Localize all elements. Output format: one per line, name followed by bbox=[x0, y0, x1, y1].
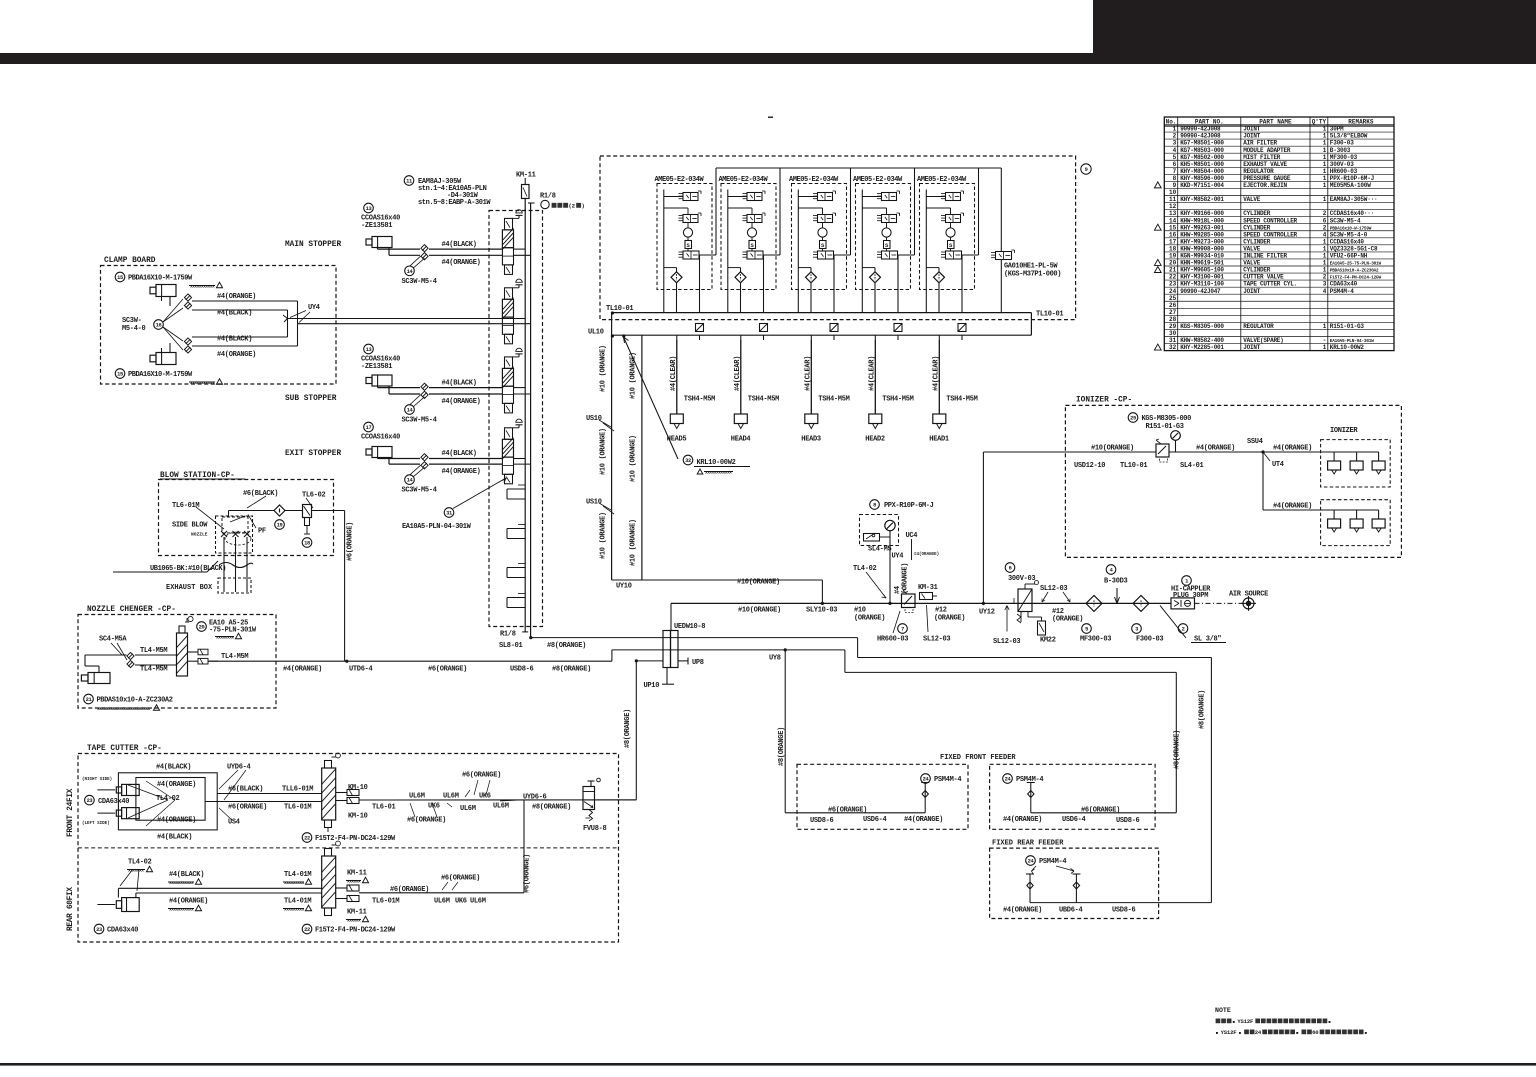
svg-text:#10(ORANGE): #10(ORANGE) bbox=[737, 579, 780, 587]
svg-text:R151-01-G3: R151-01-G3 bbox=[1330, 323, 1365, 330]
svg-text:NOZZLE: NOZZLE bbox=[191, 532, 208, 538]
svg-text:UY4: UY4 bbox=[308, 304, 320, 312]
svg-text:REMARKS: REMARKS bbox=[1348, 118, 1374, 125]
svg-text:21: 21 bbox=[1169, 267, 1177, 274]
svg-text:KKD-M7151-004: KKD-M7151-004 bbox=[1180, 182, 1224, 189]
svg-text:KM-11: KM-11 bbox=[347, 870, 367, 878]
svg-text:AIR SOURCE: AIR SOURCE bbox=[1229, 591, 1268, 599]
svg-text:6: 6 bbox=[1323, 217, 1327, 224]
svg-text:#6(ORANGE): #6(ORANGE) bbox=[347, 522, 355, 561]
svg-text:KRL10-00W2: KRL10-00W2 bbox=[1330, 344, 1365, 351]
svg-text:B-3003: B-3003 bbox=[1330, 147, 1351, 154]
svg-text:90990-42J008: 90990-42J008 bbox=[1180, 126, 1221, 133]
svg-text:#4(BLACK): #4(BLACK) bbox=[442, 379, 477, 387]
svg-text:F300-03: F300-03 bbox=[1136, 636, 1163, 644]
svg-text:UY10: UY10 bbox=[616, 583, 632, 591]
svg-text:SUB STOPPER: SUB STOPPER bbox=[285, 395, 337, 403]
svg-text:22: 22 bbox=[1169, 274, 1177, 281]
svg-text:5L3/8"ELBOW: 5L3/8"ELBOW bbox=[1330, 133, 1368, 140]
svg-text:#4(ORANGE): #4(ORANGE) bbox=[442, 259, 481, 267]
svg-text:SC3W-M5-4-0: SC3W-M5-4-0 bbox=[1330, 231, 1368, 238]
svg-text:1: 1 bbox=[1173, 126, 1177, 133]
svg-text:Q'TY: Q'TY bbox=[1312, 118, 1327, 125]
svg-text:USD6-4: USD6-4 bbox=[863, 816, 887, 824]
svg-text:1: 1 bbox=[1323, 175, 1327, 182]
svg-text:3: 3 bbox=[1323, 281, 1327, 288]
svg-text:SC3W-M5-4: SC3W-M5-4 bbox=[402, 417, 437, 425]
svg-text:20: 20 bbox=[199, 625, 205, 631]
svg-text:UL6M: UL6M bbox=[443, 793, 459, 801]
svg-text:8: 8 bbox=[1173, 175, 1177, 182]
svg-text:TSH4-M5M: TSH4-M5M bbox=[748, 396, 779, 404]
svg-text:PART NAME: PART NAME bbox=[1259, 118, 1292, 125]
svg-text:HR600-03: HR600-03 bbox=[877, 636, 908, 644]
svg-text:21: 21 bbox=[86, 697, 92, 703]
svg-text:VALVE(SPARE): VALVE(SPARE) bbox=[1243, 337, 1283, 344]
svg-text:R151-01-G3: R151-01-G3 bbox=[1146, 423, 1184, 431]
svg-text:1: 1 bbox=[1323, 344, 1327, 351]
svg-text:#6(ORANGE): #6(ORANGE) bbox=[228, 804, 267, 812]
svg-text:30PM: 30PM bbox=[1330, 126, 1344, 133]
svg-text:MAIN STOPPER: MAIN STOPPER bbox=[285, 241, 341, 249]
svg-text:USD8-6: USD8-6 bbox=[1116, 817, 1140, 825]
svg-text:PF: PF bbox=[258, 528, 266, 536]
svg-text:#6(ORANGE): #6(ORANGE) bbox=[1081, 807, 1120, 815]
svg-text:UY8: UY8 bbox=[769, 655, 781, 663]
svg-text:#4(ORANGE): #4(ORANGE) bbox=[217, 293, 256, 301]
svg-text:#8(ORANGE): #8(ORANGE) bbox=[547, 642, 586, 650]
svg-text:TL6-01M: TL6-01M bbox=[372, 898, 399, 906]
svg-text:FIXED FRONT FEEDER: FIXED FRONT FEEDER bbox=[940, 754, 1016, 762]
svg-text:F300-03: F300-03 bbox=[1330, 140, 1354, 147]
svg-text:3: 3 bbox=[1135, 627, 1138, 633]
svg-text:60: 60 bbox=[1312, 1029, 1319, 1036]
svg-text:#6(ORANGE): #6(ORANGE) bbox=[407, 817, 446, 825]
svg-text:1: 1 bbox=[1323, 253, 1327, 260]
svg-text:23: 23 bbox=[1169, 281, 1177, 288]
svg-text:KHN-M9619-501: KHN-M9619-501 bbox=[1180, 260, 1224, 267]
svg-text:90990-42J047: 90990-42J047 bbox=[1180, 288, 1221, 295]
svg-text:2: 2 bbox=[1323, 274, 1327, 281]
svg-text:HEAD3: HEAD3 bbox=[801, 436, 821, 444]
svg-text:#10 (ORANGE): #10 (ORANGE) bbox=[600, 345, 608, 392]
svg-text:16: 16 bbox=[1169, 231, 1177, 238]
svg-text:US10: US10 bbox=[586, 499, 602, 507]
svg-text:14: 14 bbox=[1169, 217, 1177, 224]
svg-text:CYLINDER: CYLINDER bbox=[1243, 238, 1270, 245]
svg-text:CDA63x40: CDA63x40 bbox=[1330, 281, 1358, 288]
svg-text:28: 28 bbox=[1169, 316, 1177, 323]
svg-text:AME05-E2-034W: AME05-E2-034W bbox=[789, 176, 839, 184]
svg-text:KHY-M8596-000: KHY-M8596-000 bbox=[1180, 175, 1224, 182]
svg-text:TL10-01: TL10-01 bbox=[606, 305, 633, 313]
svg-text:TL4-01M: TL4-01M bbox=[284, 898, 311, 906]
svg-text:M5-4-0: M5-4-0 bbox=[122, 325, 146, 333]
svg-text:#4(ORANGE): #4(ORANGE) bbox=[914, 552, 939, 557]
svg-text:TSH4-M5M: TSH4-M5M bbox=[684, 396, 715, 404]
svg-text:UTD6-4: UTD6-4 bbox=[349, 666, 373, 674]
svg-text:#10 (ORANGE): #10 (ORANGE) bbox=[600, 512, 608, 559]
svg-text:13: 13 bbox=[366, 347, 372, 353]
svg-text:#4(ORANGE): #4(ORANGE) bbox=[169, 898, 208, 906]
svg-text:TL4-02: TL4-02 bbox=[853, 565, 877, 573]
svg-text:1: 1 bbox=[1185, 579, 1188, 585]
svg-text:REGULATOR: REGULATOR bbox=[1243, 323, 1274, 330]
svg-text:FVU8-8: FVU8-8 bbox=[583, 825, 607, 833]
svg-text:CYLINDER: CYLINDER bbox=[1243, 224, 1270, 231]
svg-text:CUTTER VALVE: CUTTER VALVE bbox=[1243, 274, 1284, 281]
svg-text:EAM8AJ-305W···: EAM8AJ-305W··· bbox=[1330, 196, 1378, 203]
svg-text:KG7-M8503-000: KG7-M8503-000 bbox=[1180, 147, 1224, 154]
svg-text:KHY-M9166-000: KHY-M9166-000 bbox=[1180, 210, 1224, 217]
svg-text:PSM4M-4: PSM4M-4 bbox=[1039, 858, 1066, 866]
svg-text:300V-03: 300V-03 bbox=[1008, 575, 1035, 583]
svg-text:32: 32 bbox=[1169, 344, 1177, 351]
svg-text:11: 11 bbox=[1169, 196, 1177, 203]
svg-text:#4(ORANGE): #4(ORANGE) bbox=[442, 468, 481, 476]
svg-text:#6(ORANGE): #6(ORANGE) bbox=[828, 807, 867, 815]
svg-text:IONIZER: IONIZER bbox=[1330, 427, 1358, 435]
svg-text:CCDAS16x40···: CCDAS16x40··· bbox=[1330, 210, 1374, 217]
svg-text:KHW-M8582-400: KHW-M8582-400 bbox=[1180, 337, 1224, 344]
svg-text:JOINT: JOINT bbox=[1243, 126, 1260, 133]
svg-text:#4(BLACK): #4(BLACK) bbox=[442, 241, 477, 249]
svg-text:AME05-E2-034W: AME05-E2-034W bbox=[853, 176, 903, 184]
svg-text:SC4-M5A: SC4-M5A bbox=[99, 636, 127, 644]
svg-text:(ORANGE): (ORANGE) bbox=[1052, 616, 1083, 624]
svg-text:#12: #12 bbox=[935, 607, 947, 615]
svg-text:EA10A5-PLN-04-301W: EA10A5-PLN-04-301W bbox=[402, 523, 472, 531]
svg-text:UL6M: UL6M bbox=[493, 803, 509, 811]
svg-text:INLINE FILTER: INLINE FILTER bbox=[1243, 253, 1287, 260]
svg-text:UY12: UY12 bbox=[979, 609, 995, 617]
svg-text:#6(ORANGE): #6(ORANGE) bbox=[390, 886, 429, 894]
svg-text:1: 1 bbox=[1323, 260, 1327, 267]
svg-text:29: 29 bbox=[1169, 323, 1177, 330]
svg-text:16: 16 bbox=[156, 323, 162, 329]
svg-text:): ) bbox=[581, 203, 584, 210]
svg-text:(ORANGE): (ORANGE) bbox=[934, 615, 965, 623]
svg-text:#4(ORANGE): #4(ORANGE) bbox=[157, 781, 196, 789]
svg-text:90990-42J008: 90990-42J008 bbox=[1180, 133, 1221, 140]
svg-text:KG7-M8502-000: KG7-M8502-000 bbox=[1180, 154, 1224, 161]
svg-text:1: 1 bbox=[1323, 168, 1327, 175]
svg-text:EXHAUST VALVE: EXHAUST VALVE bbox=[1243, 161, 1287, 168]
svg-text:(LEFT SIDE): (LEFT SIDE) bbox=[82, 821, 110, 826]
svg-text:4: 4 bbox=[1173, 147, 1177, 154]
svg-text:17: 17 bbox=[366, 425, 372, 431]
svg-text:30: 30 bbox=[1169, 330, 1177, 337]
svg-text:1: 1 bbox=[1323, 161, 1327, 168]
svg-text:3: 3 bbox=[1173, 140, 1177, 147]
svg-text:-ZE13581: -ZE13581 bbox=[361, 222, 392, 230]
svg-text:#6(ORANGE): #6(ORANGE) bbox=[441, 875, 480, 883]
svg-text:#10(ORANGE): #10(ORANGE) bbox=[1091, 445, 1134, 453]
svg-text:SL4-M5: SL4-M5 bbox=[868, 546, 892, 554]
svg-text:7: 7 bbox=[1173, 168, 1177, 175]
svg-text:#6(ORANGE): #6(ORANGE) bbox=[462, 772, 501, 780]
svg-text:#4(ORANGE): #4(ORANGE) bbox=[442, 398, 481, 406]
svg-text:YS12F: YS12F bbox=[1221, 1029, 1238, 1036]
svg-text:18: 18 bbox=[304, 541, 310, 547]
svg-text:R1/8: R1/8 bbox=[540, 193, 556, 201]
svg-text:KH5-M8501-000: KH5-M8501-000 bbox=[1180, 161, 1224, 168]
svg-text:No.: No. bbox=[1166, 118, 1177, 125]
svg-text:SLY10-03: SLY10-03 bbox=[806, 607, 837, 615]
svg-text:F15T2-F4-PN-DC24-129W: F15T2-F4-PN-DC24-129W bbox=[315, 835, 396, 843]
svg-text:5: 5 bbox=[1085, 627, 1088, 633]
svg-text:#8(ORANGE): #8(ORANGE) bbox=[552, 666, 591, 674]
svg-text:US4: US4 bbox=[228, 819, 240, 827]
svg-text:6: 6 bbox=[1009, 566, 1012, 572]
svg-text:VFU2-66P-NH: VFU2-66P-NH bbox=[1330, 253, 1368, 260]
svg-text:2: 2 bbox=[1173, 133, 1177, 140]
svg-text:KHY-M9263-001: KHY-M9263-001 bbox=[1180, 224, 1224, 231]
svg-text:27: 27 bbox=[1169, 309, 1177, 316]
svg-text:1: 1 bbox=[1323, 196, 1327, 203]
svg-text:17: 17 bbox=[1169, 238, 1177, 245]
svg-text:CYLINDER: CYLINDER bbox=[1243, 210, 1270, 217]
svg-text:1: 1 bbox=[1323, 126, 1327, 133]
svg-text:1: 1 bbox=[1323, 182, 1327, 189]
svg-text:JOINT: JOINT bbox=[1243, 344, 1260, 351]
svg-text:KM-11: KM-11 bbox=[516, 172, 536, 180]
svg-text:1: 1 bbox=[1323, 147, 1327, 154]
svg-text:TL4-M5M: TL4-M5M bbox=[221, 653, 248, 661]
svg-text:TL6-01M: TL6-01M bbox=[284, 804, 311, 812]
svg-text:SL8-01: SL8-01 bbox=[499, 642, 523, 650]
svg-text:UY4: UY4 bbox=[892, 553, 904, 561]
svg-text:SC3W-M5-4: SC3W-M5-4 bbox=[1330, 217, 1361, 224]
svg-text:KHW-M9285-000: KHW-M9285-000 bbox=[1180, 231, 1224, 238]
svg-text:#4(ORANGE): #4(ORANGE) bbox=[1003, 907, 1042, 915]
svg-text:19: 19 bbox=[277, 523, 283, 529]
svg-text:#4(BLACK): #4(BLACK) bbox=[157, 834, 192, 842]
svg-text:KGS-M8305-000: KGS-M8305-000 bbox=[1180, 323, 1224, 330]
svg-text:SC3W-M5-4: SC3W-M5-4 bbox=[402, 278, 437, 286]
svg-text:TSH4-M5M: TSH4-M5M bbox=[946, 396, 977, 404]
svg-text:CCDAS16x40: CCDAS16x40 bbox=[1330, 238, 1365, 245]
svg-text:#8(ORANGE): #8(ORANGE) bbox=[1199, 690, 1207, 729]
svg-text:#6(ORANGE): #6(ORANGE) bbox=[524, 854, 532, 893]
svg-text:-ZE13581: -ZE13581 bbox=[361, 363, 392, 371]
svg-text:UP8: UP8 bbox=[692, 659, 704, 667]
svg-text:KHY-M3110-100: KHY-M3110-100 bbox=[1180, 281, 1224, 288]
svg-text:#8(ORANGE): #8(ORANGE) bbox=[532, 804, 571, 812]
svg-text:SL12-03: SL12-03 bbox=[993, 638, 1020, 646]
svg-text:KRL10-00W2: KRL10-00W2 bbox=[697, 459, 736, 467]
svg-text:MIST FILTER: MIST FILTER bbox=[1243, 154, 1281, 161]
svg-text:25: 25 bbox=[1169, 295, 1177, 302]
svg-text:FRONT 24FIX: FRONT 24FIX bbox=[67, 788, 75, 837]
svg-text:KM-10: KM-10 bbox=[348, 784, 368, 792]
svg-text:PSM4M-4: PSM4M-4 bbox=[1330, 288, 1354, 295]
svg-text:USD8-6: USD8-6 bbox=[510, 666, 534, 674]
svg-text:TSH4-M5M: TSH4-M5M bbox=[818, 396, 849, 404]
svg-text:12: 12 bbox=[1169, 203, 1177, 210]
svg-text:HEAD4: HEAD4 bbox=[731, 436, 751, 444]
svg-text:KHW-M918L-000: KHW-M918L-000 bbox=[1180, 217, 1224, 224]
svg-text:CCOAS16x40: CCOAS16x40 bbox=[361, 434, 400, 442]
svg-text:MF300-03: MF300-03 bbox=[1080, 636, 1111, 644]
svg-text:UT4: UT4 bbox=[1272, 461, 1284, 469]
svg-text:F15T2-F4-PN-DC24-129W: F15T2-F4-PN-DC24-129W bbox=[315, 927, 396, 935]
svg-text:TSH4-M5M: TSH4-M5M bbox=[882, 396, 913, 404]
svg-text:CYLINDER: CYLINDER bbox=[1243, 267, 1270, 274]
svg-text:KGN-M9934-010: KGN-M9934-010 bbox=[1180, 253, 1224, 260]
svg-text:(KGS-M37P1-000): (KGS-M37P1-000) bbox=[1004, 271, 1061, 279]
svg-text:UL10: UL10 bbox=[588, 329, 604, 337]
svg-text:1: 1 bbox=[1323, 238, 1327, 245]
svg-text:PLUG 30PM: PLUG 30PM bbox=[1173, 592, 1208, 600]
svg-text:VALVE: VALVE bbox=[1243, 260, 1260, 267]
svg-text:R1/8: R1/8 bbox=[500, 631, 516, 639]
svg-text:SC3W-M5-4: SC3W-M5-4 bbox=[402, 487, 437, 495]
svg-text:#10: #10 bbox=[854, 607, 866, 615]
svg-text:AME05-E2-034W: AME05-E2-034W bbox=[917, 176, 967, 184]
svg-text:(ORANGE): (ORANGE) bbox=[902, 563, 910, 594]
svg-text:PBDAS10x10-A-ZC230A2: PBDAS10x10-A-ZC230A2 bbox=[97, 697, 173, 705]
svg-text:4: 4 bbox=[1323, 231, 1327, 238]
svg-text:UYD6-6: UYD6-6 bbox=[523, 794, 547, 802]
svg-text:1: 1 bbox=[1323, 267, 1327, 274]
svg-text:23: 23 bbox=[87, 798, 93, 804]
svg-text:TL6-01M: TL6-01M bbox=[172, 502, 199, 510]
svg-text:#8(ORANGE): #8(ORANGE) bbox=[778, 727, 786, 766]
svg-text:SPEED CONTROLLER: SPEED CONTROLLER bbox=[1243, 231, 1297, 238]
svg-text:CDA63x40: CDA63x40 bbox=[107, 927, 138, 935]
svg-text:TL4-02: TL4-02 bbox=[128, 859, 152, 867]
svg-text:VALVE: VALVE bbox=[1243, 196, 1260, 203]
svg-text:KHY-M9605-100: KHY-M9605-100 bbox=[1180, 267, 1224, 274]
svg-text:JOINT: JOINT bbox=[1243, 133, 1260, 140]
svg-text:USD8-6: USD8-6 bbox=[810, 817, 834, 825]
svg-text:(2: (2 bbox=[568, 203, 575, 210]
svg-text:#10(ORANGE): #10(ORANGE) bbox=[738, 607, 781, 615]
svg-text:AME05-E2-034W: AME05-E2-034W bbox=[655, 176, 705, 184]
svg-text:KHY-M8582-001: KHY-M8582-001 bbox=[1180, 196, 1224, 203]
svg-text:23: 23 bbox=[96, 927, 102, 933]
svg-text:UL6M: UL6M bbox=[409, 793, 425, 801]
svg-text:#10 (ORANGE): #10 (ORANGE) bbox=[630, 519, 638, 566]
svg-text:USD12-10: USD12-10 bbox=[1074, 462, 1105, 470]
svg-text:9: 9 bbox=[1173, 182, 1177, 189]
svg-text:TL6-02: TL6-02 bbox=[302, 492, 326, 500]
svg-text:KM-31: KM-31 bbox=[918, 584, 938, 592]
svg-text:22: 22 bbox=[304, 836, 310, 842]
svg-text:9: 9 bbox=[1085, 167, 1088, 173]
svg-text:KHY-M2285-001: KHY-M2285-001 bbox=[1180, 344, 1224, 351]
svg-text:#4(ORANGE): #4(ORANGE) bbox=[1003, 816, 1042, 824]
svg-text:EXHAUST BOX: EXHAUST BOX bbox=[166, 584, 213, 592]
svg-text:#4(ORANGE): #4(ORANGE) bbox=[217, 351, 256, 359]
svg-text:KHY-M3100-001: KHY-M3100-001 bbox=[1180, 274, 1224, 281]
svg-text:1: 1 bbox=[1323, 140, 1327, 147]
svg-text:REAR 60FIX: REAR 60FIX bbox=[67, 887, 75, 931]
svg-text:TAPE CUTTER CYL.: TAPE CUTTER CYL. bbox=[1243, 281, 1297, 288]
svg-text:#10 (ORANGE): #10 (ORANGE) bbox=[630, 435, 638, 482]
svg-text:GA010HE1-PL-5W: GA010HE1-PL-5W bbox=[1004, 263, 1058, 271]
svg-text:PPX-R10P-6M-J: PPX-R10P-6M-J bbox=[1330, 175, 1374, 182]
svg-text:JOINT: JOINT bbox=[1243, 288, 1260, 295]
svg-text:TL4-M5M: TL4-M5M bbox=[140, 666, 167, 674]
svg-text:KHY-M9273-000: KHY-M9273-000 bbox=[1180, 238, 1224, 245]
svg-text:#8(ORANGE): #8(ORANGE) bbox=[1174, 730, 1182, 769]
svg-text:2: 2 bbox=[1323, 210, 1327, 217]
svg-text:#4(BLACK): #4(BLACK) bbox=[156, 764, 191, 772]
svg-text:YS12F: YS12F bbox=[1237, 1018, 1254, 1025]
svg-text:AIR FILTER: AIR FILTER bbox=[1243, 140, 1277, 147]
svg-text:ME05M5A-100W: ME05M5A-100W bbox=[1330, 182, 1371, 189]
svg-text:CLAMP BOARD: CLAMP BOARD bbox=[104, 257, 156, 265]
svg-text:UK6: UK6 bbox=[479, 793, 491, 801]
svg-text:PBDA16X10-M-1759W: PBDA16X10-M-1759W bbox=[128, 275, 193, 283]
svg-text:2: 2 bbox=[1182, 627, 1185, 633]
svg-text:PART NO.: PART NO. bbox=[1195, 118, 1224, 125]
svg-text:#10 (ORANGE): #10 (ORANGE) bbox=[600, 428, 608, 475]
svg-text:KM22: KM22 bbox=[1040, 637, 1056, 645]
svg-text:PPX-R10P-6M-J: PPX-R10P-6M-J bbox=[884, 502, 934, 510]
svg-text:KM-11: KM-11 bbox=[347, 909, 367, 917]
svg-text:PBDA16X10-M-1759W: PBDA16X10-M-1759W bbox=[128, 371, 193, 379]
svg-text:HEAD2: HEAD2 bbox=[865, 436, 885, 444]
svg-text:-75-PLN-301W: -75-PLN-301W bbox=[209, 627, 257, 635]
svg-text:#8(ORANGE): #8(ORANGE) bbox=[624, 709, 632, 748]
svg-text:(ORANGE): (ORANGE) bbox=[854, 615, 885, 623]
svg-text:#4(ORANGE): #4(ORANGE) bbox=[1273, 503, 1312, 511]
svg-text:26: 26 bbox=[1169, 302, 1177, 309]
svg-text:24: 24 bbox=[1169, 288, 1177, 295]
svg-text:TL4-02: TL4-02 bbox=[156, 795, 180, 803]
svg-text:UYD6-4: UYD6-4 bbox=[227, 764, 251, 772]
svg-text:#6(ORANGE): #6(ORANGE) bbox=[428, 666, 467, 674]
svg-text:CDA63x40: CDA63x40 bbox=[98, 798, 129, 806]
svg-text:#6(BLACK): #6(BLACK) bbox=[243, 490, 278, 498]
svg-text:#4(BLACK): #4(BLACK) bbox=[169, 871, 204, 879]
svg-text:11: 11 bbox=[406, 179, 412, 185]
svg-text:8: 8 bbox=[873, 503, 876, 509]
svg-text:PRESSURE GAUGE: PRESSURE GAUGE bbox=[1243, 175, 1291, 182]
svg-text:VQZ3328-5G1-C8: VQZ3328-5G1-C8 bbox=[1330, 245, 1378, 252]
svg-text:-: - bbox=[1323, 337, 1327, 344]
svg-text:20: 20 bbox=[1169, 260, 1177, 267]
svg-text:USD8-6: USD8-6 bbox=[1112, 907, 1136, 915]
svg-text:AME05-E2-034W: AME05-E2-034W bbox=[719, 176, 769, 184]
svg-text:VALVE: VALVE bbox=[1243, 245, 1260, 252]
svg-text:EXIT STOPPER: EXIT STOPPER bbox=[285, 450, 341, 458]
svg-text:24: 24 bbox=[1255, 1029, 1262, 1036]
svg-text:NOZZLE CHENGER -CP-: NOZZLE CHENGER -CP- bbox=[87, 606, 176, 614]
svg-text:SPEED CONTROLLER: SPEED CONTROLLER bbox=[1243, 217, 1297, 224]
svg-text:18: 18 bbox=[1169, 245, 1177, 252]
svg-text:#4(ORANGE): #4(ORANGE) bbox=[904, 816, 943, 824]
svg-text:UK6: UK6 bbox=[455, 898, 467, 906]
svg-text:US10: US10 bbox=[586, 415, 602, 423]
svg-text:#4(ORANGE): #4(ORANGE) bbox=[1196, 445, 1235, 453]
svg-text:TL4-01M: TL4-01M bbox=[284, 871, 311, 879]
svg-text:#4(BLACK): #4(BLACK) bbox=[217, 310, 252, 318]
svg-text:#4(ORANGE): #4(ORANGE) bbox=[157, 817, 196, 825]
svg-text:UL6M: UL6M bbox=[470, 898, 486, 906]
svg-text:SC3W-: SC3W- bbox=[122, 317, 142, 325]
svg-text:(RIGHT SIDE): (RIGHT SIDE) bbox=[82, 777, 112, 782]
svg-text:SL4-01: SL4-01 bbox=[1180, 462, 1204, 470]
svg-text:13: 13 bbox=[366, 206, 372, 212]
svg-text:stn.5~8:EABP-A-301W: stn.5~8:EABP-A-301W bbox=[418, 199, 491, 207]
svg-text:UP10: UP10 bbox=[644, 682, 660, 690]
svg-text:300V-03: 300V-03 bbox=[1330, 161, 1354, 168]
svg-text:2: 2 bbox=[1323, 224, 1327, 231]
